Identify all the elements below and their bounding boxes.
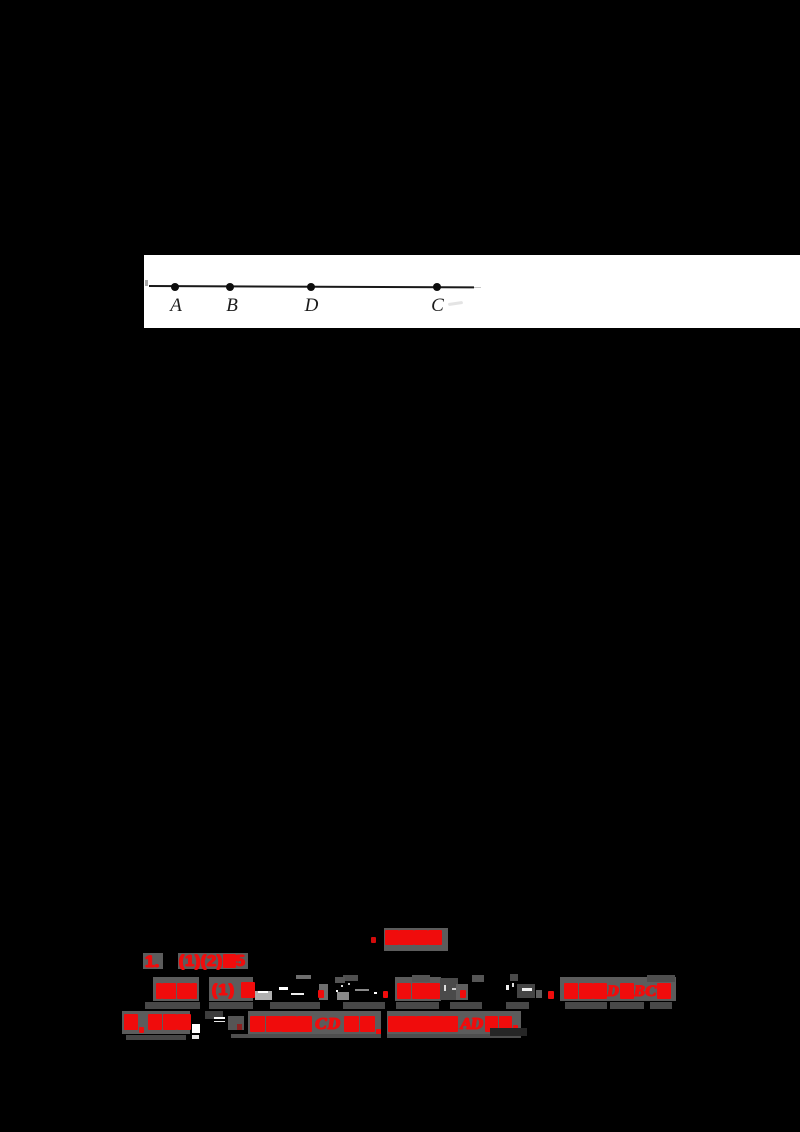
line 2 bottom strip xyxy=(145,1002,200,1009)
labels xyxy=(169,295,183,317)
line 3 backing xyxy=(122,1011,190,1034)
line 2 commas xyxy=(318,990,324,998)
line 1 text xyxy=(145,952,159,972)
point A xyxy=(171,283,179,291)
line 2 red runs xyxy=(155,983,198,1001)
line 3 red runs xyxy=(124,1014,145,1033)
formula zone 3 remnants (x 440-487) xyxy=(440,978,458,1000)
line 3 formula remnants (x 190-248) xyxy=(192,1024,201,1033)
line 2 backing xyxy=(153,977,199,1001)
faint smudge right of C xyxy=(448,301,463,306)
title red blocks (4 chars) xyxy=(385,929,443,947)
line 1 backing xyxy=(143,953,163,969)
number line xyxy=(149,285,474,289)
formula zone 1 remnants (x 255-337) xyxy=(255,991,272,1000)
point C xyxy=(433,283,441,291)
point B xyxy=(226,283,234,291)
line 3 bottom strip xyxy=(126,1035,186,1040)
figure: white strip with number line xyxy=(144,255,800,328)
formula zone 4 remnants (x 500-535) xyxy=(506,985,509,990)
formula zone 2 remnants (x 335-385) xyxy=(335,977,345,983)
gray tick at left edge xyxy=(145,280,148,286)
point D xyxy=(307,283,315,291)
red speck left of title xyxy=(371,937,376,943)
title backing xyxy=(384,928,448,951)
extra top-edge gray patches (jpeg cell remnants) xyxy=(343,975,358,981)
